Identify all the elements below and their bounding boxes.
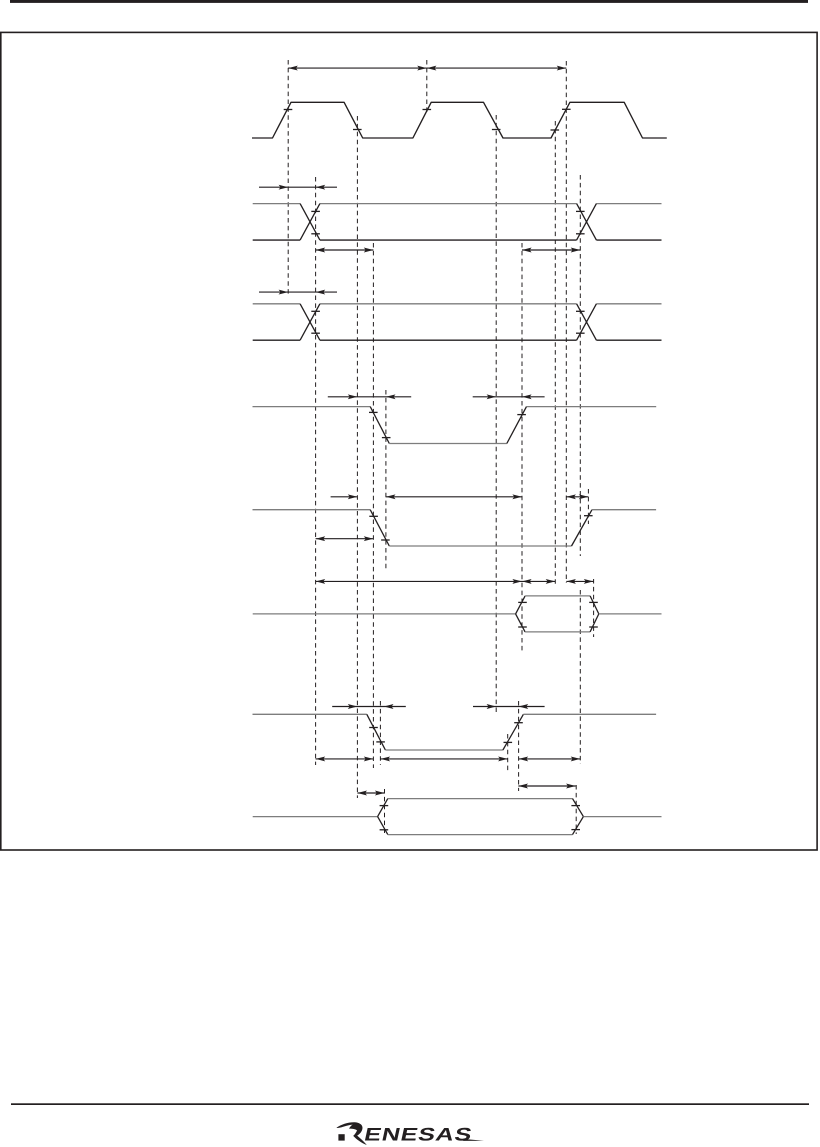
read data D31-D0 left rail: [253, 613, 516, 615]
dashed line t6 (WAIT fall lower): [379, 701, 381, 765]
read strobe RD tick marks: [369, 411, 378, 413]
tWTH wait rise arrow: [473, 706, 545, 708]
WAIT signal falling edge: [367, 714, 386, 750]
tCYC clock cycle arrow 1: [288, 67, 427, 69]
dashed line t15 (data hold right): [593, 579, 595, 637]
tRDH data hold arrow: [566, 580, 593, 582]
write strobe WRx falling edge: [370, 510, 389, 546]
WAIT signal high rail left: [253, 713, 367, 715]
WAIT signal low rail: [385, 749, 503, 751]
tAD address delay arrow: [259, 186, 337, 188]
read strobe RD low rail: [389, 443, 507, 445]
Renesas logo final S tail: [463, 1139, 484, 1141]
dashed line t13 (bus change right lower): [579, 590, 581, 764]
tWRR write recover arrow: [566, 496, 588, 498]
WAIT signal rising edge: [503, 714, 524, 750]
dashed line t13 (bus change right upper): [579, 175, 581, 556]
dashed line t16 (WAIT rise lower): [507, 734, 509, 772]
read strobe RD falling edge: [370, 407, 389, 444]
write data D31-D0 tick marks: [380, 805, 389, 807]
chip-select bus CSn left transition X: [300, 304, 320, 340]
read data D31-D0 top rail: [525, 595, 590, 597]
dashed line t7 (data valid left): [384, 789, 386, 833]
read strobe RD rising edge: [507, 407, 527, 444]
chip-select bus CSn right transition X: [577, 304, 597, 340]
dashed line t12 (clock rise 3 lower): [554, 121, 556, 586]
chip-select bus CSn tick marks: [311, 310, 320, 312]
dashed line t8 (clock rise 2): [426, 60, 428, 112]
read data D31-D0 close transition: [590, 596, 599, 614]
tCYC clock cycle arrow 2: [427, 67, 567, 69]
write data D31-D0 open transition: [378, 799, 388, 817]
read strobe RD high rail left: [253, 406, 371, 408]
dashed line t14 (WR rise tick): [587, 489, 589, 524]
write data D31-D0 bottom rail: [388, 834, 573, 836]
tRDD2 read rise delay arrow: [473, 396, 545, 398]
tWDD write data delay arrow: [357, 792, 384, 794]
chip-select bus CSn top rail: [253, 303, 300, 305]
Renesas logo swoosh stroke: [336, 1122, 360, 1128]
write strobe WRx rising edge: [572, 510, 593, 546]
dashed line t4 (strobe fall upper): [372, 243, 374, 768]
Renesas logo letters ENESAS: [362, 1124, 474, 1145]
dashed line t9 (clock rise 3 upper): [565, 61, 567, 583]
dashed line t5 (strobe fall lower): [385, 390, 387, 570]
tAH address hold arrow: [522, 249, 580, 251]
read data D31-D0 right rail: [599, 613, 662, 615]
page footer rule: [11, 1103, 809, 1105]
read data D31-D0 bottom rail: [525, 631, 590, 633]
address bus A25-A0 tick marks: [311, 210, 320, 212]
tRDS data setup arrow: [522, 580, 555, 582]
dashed line t10 (clock fall 2): [495, 115, 497, 712]
read data D31-D0 open transition: [516, 596, 526, 614]
tRD pulse width arrow: [386, 496, 522, 498]
write data D31-D0 close transition: [573, 799, 584, 817]
dashed line t17 (WAIT rise upper): [518, 701, 520, 791]
tWPW wait width arrow: [381, 758, 508, 760]
dashed line t1 (clock rise 1): [287, 60, 289, 297]
write data D31-D0 right rail: [583, 816, 661, 818]
tACC access time arrow: [316, 580, 522, 582]
write data D31-D0 top rail: [388, 798, 573, 800]
WAIT signal high rail right: [523, 713, 656, 715]
chip-select bus CSn bottom rail: [253, 339, 300, 341]
dashed line t3 (clock fall 1): [356, 116, 358, 798]
tWDH write data hold arrow: [518, 785, 575, 787]
read strobe RD high rail right: [527, 406, 657, 408]
tRDS setup arrow: [331, 496, 358, 498]
WAIT signal tick marks: [369, 727, 378, 729]
dashed line t11 (strobe rise upper): [521, 243, 523, 651]
address bus A25-A0 left transition X: [300, 204, 320, 241]
tWTS wait fall arrow: [332, 706, 406, 708]
dashed line t2 (bus delay): [315, 177, 317, 765]
write strobe WRx high rail left: [253, 509, 371, 511]
tCSD chip-select delay arrow: [259, 291, 337, 293]
write strobe WRx tick marks: [369, 515, 378, 517]
clock CKIO waveform: [252, 102, 667, 138]
tRDD1 read fall delay arrow: [328, 396, 411, 398]
clock reference tick marks: [284, 109, 293, 111]
address bus A25-A0 top rail: [253, 203, 300, 205]
read data D31-D0 tick marks: [518, 601, 527, 603]
tWHD wait hold arrow: [519, 758, 581, 760]
address bus A25-A0 right transition X: [577, 204, 597, 241]
Renesas logo square dot: [338, 1134, 344, 1140]
write strobe WRx high rail right: [592, 509, 656, 511]
write data D31-D0 left rail: [253, 816, 378, 818]
tAS address setup arrow: [316, 249, 374, 251]
tWSU wait setup arrow: [316, 758, 374, 760]
dashed line t18 (write data right): [575, 785, 577, 834]
address bus A25-A0 bottom rail: [253, 239, 300, 241]
tWRD write delay arrow: [316, 538, 374, 540]
diagram frame box: [1, 32, 817, 850]
svg-text:ENESAS: ENESAS: [362, 1124, 474, 1145]
Renesas logo R head and leg: [349, 1123, 367, 1145]
write strobe WRx low rail: [389, 545, 571, 547]
page header rule: [10, 0, 808, 3]
